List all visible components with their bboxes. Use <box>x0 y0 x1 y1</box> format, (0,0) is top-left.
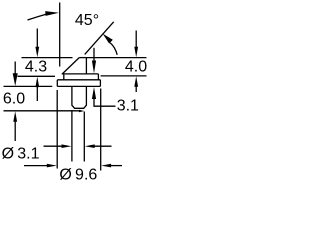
dim 4.0 dimension line below <box>135 84 137 92</box>
arrowhead dim 6.0 lower (up) <box>13 111 17 122</box>
arrowhead dim 6.0 bottom ext right tip <box>79 110 84 112</box>
svg-text:4.0: 4.0 <box>125 59 147 76</box>
arrowhead dim 3.1 lower (up at flange bottom) <box>92 87 96 99</box>
head right edge <box>85 58 87 74</box>
dim dia 9.6 right dimension line <box>111 165 123 167</box>
dim 4.3 dimension line below <box>36 87 38 102</box>
brim left edge <box>63 74 65 80</box>
brim top surface <box>62 73 99 75</box>
pin outline <box>72 86 87 108</box>
chamfer extension line (diagonal) <box>85 22 114 55</box>
head top surface <box>79 57 86 59</box>
svg-text:Ø 3.1: Ø 3.1 <box>2 145 40 162</box>
svg-text:45°: 45° <box>75 12 99 29</box>
dim 6.0 dimension line above <box>14 62 16 74</box>
dim 6.0 dimension line below <box>14 121 16 141</box>
arrowhead dim 6.0 upper (down, large) <box>13 73 18 86</box>
45-deg vertical reference extension line <box>59 3 61 67</box>
dim dia 9.6 right extension line <box>100 89 102 171</box>
dim dia 3.1 left dimension line <box>44 145 63 147</box>
dim 4.0 bottom extension line <box>101 75 147 77</box>
arrowhead 45-deg right arc (points up-left at diagonal) <box>103 34 113 44</box>
dim dia 3.1 right extension line <box>83 112 85 162</box>
arrowhead dim 3.1 upper (down at brim top) <box>92 61 96 74</box>
brim right edge <box>97 74 99 80</box>
arrowhead dim 4.0 upper (down) <box>134 47 138 58</box>
dim dia 3.1 left extension line <box>71 110 73 162</box>
dim 6.0 top extension line <box>4 85 53 87</box>
svg-text:Ø 9.6: Ø 9.6 <box>59 166 97 183</box>
svg-text:4.3: 4.3 <box>25 59 47 76</box>
45-deg left leader arc <box>28 14 47 20</box>
arrowhead dim 4.0 lower (up) <box>134 76 138 87</box>
flange right edge <box>99 80 101 87</box>
dim 6.0 bottom extension line (pin tip level) <box>4 110 80 112</box>
arrowhead dia 3.1 left (points right) <box>62 144 72 148</box>
svg-text:3.1: 3.1 <box>117 98 139 115</box>
arrowhead dim 4.3 lower (up) <box>35 77 39 88</box>
arrowhead 45-deg left arc (points right at vertical line) <box>45 11 59 16</box>
dim 4.0 top extension line <box>86 57 146 59</box>
arrowhead dia 3.1 right (points left) <box>85 144 95 148</box>
arrowhead dim 4.3 upper (down) <box>35 47 39 58</box>
flange top surface <box>57 79 100 81</box>
flange bottom surface <box>57 85 100 87</box>
dim 4.3 bottom extension line <box>18 75 56 77</box>
dim dia 3.1 right dimension line <box>94 145 112 147</box>
dim dia 9.6 left dimension line <box>24 165 48 167</box>
svg-text:6.0: 6.0 <box>3 90 25 107</box>
dim dia 9.6 left extension line <box>56 90 58 169</box>
arrowhead dia 9.6 right (points left) <box>101 164 111 168</box>
dim 3.1 dimension line above (brim top) <box>93 48 95 63</box>
dim 3.1 dimension line below + leader to text <box>94 98 116 106</box>
45-deg right leader arc tail <box>110 43 117 55</box>
arrowhead dia 9.6 left (points right) <box>47 164 57 168</box>
45-deg chamfer of head <box>62 58 79 74</box>
flange left edge <box>56 80 58 87</box>
dim 4.0 dimension line above <box>135 31 137 49</box>
dim 4.3 dimension line above <box>36 29 38 48</box>
dim 4.3 top extension line <box>22 57 73 59</box>
